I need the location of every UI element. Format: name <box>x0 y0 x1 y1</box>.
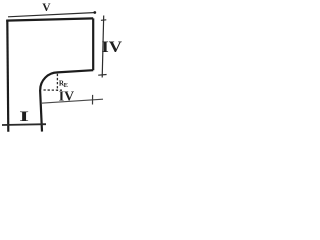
fillet center: vertical dashed extension <box>56 74 58 91</box>
svg-text:I: I <box>19 108 29 125</box>
svg-text:E: E <box>64 82 68 89</box>
part outline: inner leg edge <box>40 90 42 132</box>
dimension IV bottom: tick <box>92 95 94 105</box>
part outline: bottom edge / dim line I <box>2 123 46 126</box>
dimension IV right: line <box>102 16 104 78</box>
dimension IV right: bottom tick <box>98 74 106 77</box>
dimension V: end dot <box>93 11 96 14</box>
dimension V: line <box>8 13 94 17</box>
background <box>0 0 124 136</box>
svg-text:IV: IV <box>102 38 123 55</box>
part outline: right edge <box>92 18 94 70</box>
part outline: top edge <box>6 18 93 20</box>
dimension IV right: top tick <box>101 19 106 22</box>
dimension IV bottom: line <box>41 99 103 103</box>
part outline: fillet arc <box>40 72 57 90</box>
part outline: left edge <box>7 20 8 132</box>
fillet center: horizontal dashed extension <box>44 89 63 91</box>
svg-text:V: V <box>42 2 51 14</box>
part outline: underside edge <box>58 70 94 72</box>
